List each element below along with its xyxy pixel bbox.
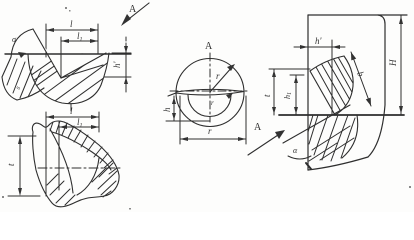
small tick under disc bbox=[70, 104, 72, 111]
grinding wheel circle bbox=[176, 59, 244, 127]
tooth right edge to V vertex bbox=[33, 29, 61, 78]
chip (tilted hatched shape) bbox=[310, 56, 353, 115]
lower-left hatch bbox=[47, 174, 75, 205]
tooth bottom arc bbox=[2, 77, 17, 100]
svg-text:r: r bbox=[216, 71, 220, 81]
lens chip lower arc bbox=[168, 92, 244, 97]
surface line (right figure) bbox=[279, 114, 404, 116]
small tip arrow on surface line bbox=[18, 52, 26, 58]
tooth left edge bbox=[2, 57, 11, 77]
right lobe hatch bbox=[92, 163, 117, 197]
dimension l (top-left) bbox=[46, 24, 98, 57]
svg-text:r: r bbox=[211, 99, 214, 107]
dimension h1 (right figure) bbox=[290, 75, 304, 115]
dimension t (left) bbox=[8, 136, 40, 196]
dimension r (bottom of middle figure) bbox=[180, 96, 246, 144]
workpiece bottom wavy edge bbox=[308, 157, 368, 170]
dimension h' (right of top-left figure) bbox=[104, 44, 131, 92]
cutter tooth round tip arc bbox=[11, 29, 33, 57]
centerline (bottom-left figure) bbox=[38, 167, 122, 169]
vertical centerline bbox=[209, 53, 211, 122]
corner junction blob bbox=[306, 163, 311, 169]
dimension l1 (bottom-left) bbox=[59, 122, 99, 190]
svg-text:h': h' bbox=[315, 36, 323, 46]
workpiece left edge bbox=[307, 15, 309, 170]
inner boundary of right lobe bbox=[77, 158, 99, 195]
view arrow A (top) bbox=[121, 3, 149, 26]
disc hatch (top-left) bbox=[10, 48, 112, 108]
horizontal centerline bbox=[170, 90, 250, 92]
inner semicircle bbox=[188, 95, 231, 117]
angle alpha arc bbox=[288, 156, 311, 159]
h' extension dashes bbox=[125, 37, 127, 44]
svg-text:A: A bbox=[205, 41, 213, 52]
view arrow A line bbox=[248, 133, 281, 155]
inner arc of top crescent bbox=[52, 132, 111, 170]
l1 extension line through notch bbox=[60, 50, 62, 78]
dimension h (middle figure) bbox=[166, 96, 210, 121]
workpiece half-disc (top-left) bbox=[28, 53, 109, 104]
dimension l (bottom-left) bbox=[46, 112, 99, 196]
dimension b (along chip edge) bbox=[351, 52, 371, 106]
svg-text:r: r bbox=[208, 126, 212, 136]
dimension h' (top of right figure) bbox=[294, 40, 345, 115]
svg-text:h': h' bbox=[112, 61, 122, 69]
tooth inner edge bbox=[17, 88, 44, 100]
cut surface fan line 1 from vertex bbox=[61, 53, 106, 78]
svg-text:h: h bbox=[162, 107, 172, 112]
svg-text:A: A bbox=[254, 122, 262, 133]
crescent hatch bbox=[50, 121, 117, 174]
workpiece top edge bbox=[308, 14, 407, 16]
white V notch bbox=[35, 32, 104, 77]
surface line (top-left workpiece) bbox=[5, 53, 131, 55]
tooth hatch bbox=[7, 59, 41, 98]
radius arrow r bbox=[210, 66, 233, 92]
inner leaf boundary bbox=[50, 129, 73, 193]
chip hatch bbox=[316, 57, 369, 121]
flank line A-A bbox=[283, 105, 350, 143]
blob outline (bottom-left chip) bbox=[32, 121, 119, 207]
cut surface fan line 2 from vertex bbox=[61, 65, 103, 78]
tooth hatch (right figure) bbox=[308, 115, 355, 161]
tooth below surface (right figure) bbox=[342, 115, 358, 158]
dimension H bbox=[399, 15, 403, 115]
workpiece right edge with corner bbox=[368, 15, 385, 157]
arrow on inner arc bbox=[226, 93, 233, 99]
lens chip upper arc bbox=[176, 89, 244, 92]
dimension t (right figure) bbox=[269, 69, 310, 115]
dimension l1 (top-left) bbox=[61, 37, 98, 77]
svg-text:A: A bbox=[129, 4, 137, 15]
svg-text:H: H bbox=[388, 59, 398, 67]
